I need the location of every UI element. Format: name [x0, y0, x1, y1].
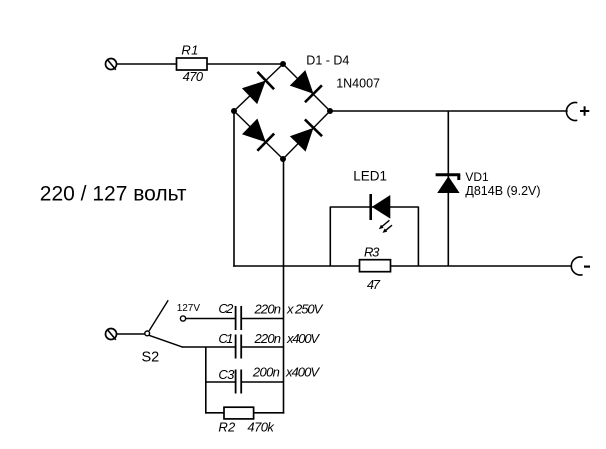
- wire: input terminal to switch pole: [116, 333, 144, 335]
- output terminal -: [571, 257, 590, 275]
- svg-text:C1: C1: [218, 331, 233, 346]
- svg-text:x 250V: x 250V: [286, 302, 324, 317]
- wire: left bus to C3: [206, 381, 236, 383]
- LED LED1: [371, 194, 392, 233]
- svg-text:S2: S2: [142, 350, 160, 366]
- svg-text:220n: 220n: [254, 331, 282, 346]
- svg-text:D1 - D4: D1 - D4: [306, 54, 349, 68]
- wire: minus rail: [233, 265, 571, 267]
- wire: C3 right plate to bus: [241, 381, 283, 383]
- capacitor C2: [218, 301, 323, 330]
- svg-text:470: 470: [183, 69, 204, 84]
- resistor R3: [360, 244, 391, 292]
- node: bridge right junction: [327, 108, 333, 114]
- node: bridge bottom junction: [280, 156, 286, 162]
- wire: left bus to R2: [205, 412, 224, 414]
- wire: input terminal to R1: [116, 63, 176, 65]
- diode D3 (left node to bottom node): [241, 118, 274, 151]
- diode D1 (left node to top node): [241, 72, 274, 105]
- wire: bridge edge top-right: [283, 64, 330, 111]
- wire: left bus vertical: [205, 347, 207, 414]
- svg-text:200n: 200n: [252, 365, 280, 380]
- node: bridge top junction: [280, 61, 286, 67]
- svg-text:Д814В (9.2V): Д814В (9.2V): [465, 184, 540, 198]
- svg-text:47: 47: [367, 277, 381, 292]
- capacitor C1: [218, 331, 320, 359]
- wire: switch throw to C1: [183, 346, 236, 348]
- wire: C2 right plate to bus: [241, 318, 283, 320]
- svg-text:LED1: LED1: [353, 168, 387, 183]
- wire: R1 to bridge top node: [207, 63, 283, 65]
- switch S2: [142, 300, 184, 365]
- svg-text:R3: R3: [364, 244, 380, 259]
- input terminal (bottom line input): [106, 329, 117, 340]
- svg-text:x400V: x400V: [286, 331, 320, 346]
- wire: 127V contact to C2: [186, 318, 236, 320]
- wire: bridge edge left-bottom: [234, 111, 283, 159]
- wire: LED branch left vertical: [329, 207, 331, 267]
- svg-text:R2: R2: [218, 420, 236, 435]
- 127V tap contact: [180, 316, 185, 321]
- node: bridge left junction: [231, 108, 237, 114]
- wire: bridge edge bottom-right: [283, 111, 330, 159]
- diode D4 (bottom node to right node): [289, 119, 322, 152]
- output terminal +: [566, 102, 589, 120]
- diode D2 (top node to right node): [289, 69, 322, 102]
- zener diode VD1: [436, 111, 461, 266]
- wire: bridge bottom node down to capacitor bus: [283, 159, 285, 414]
- svg-text:1N4007: 1N4007: [336, 76, 380, 90]
- svg-text:R1: R1: [181, 42, 198, 57]
- wire: bridge edge left-top: [234, 64, 283, 111]
- resistor R2: [218, 407, 275, 434]
- svg-text:VD1: VD1: [465, 170, 489, 184]
- svg-text:C2: C2: [218, 301, 234, 316]
- svg-text:x400V: x400V: [285, 365, 320, 380]
- wire: bridge left node down to minus rail: [233, 111, 235, 267]
- capacitor C3: [218, 365, 320, 394]
- wire: LED branch top horizontal: [330, 206, 418, 208]
- resistor R1: [177, 42, 208, 84]
- svg-text:C3: C3: [218, 367, 235, 382]
- wire: LED branch right vertical: [417, 207, 419, 267]
- input terminal (top line input): [106, 59, 117, 70]
- wire: R2 to capacitor bus: [254, 412, 285, 414]
- svg-text:127V: 127V: [177, 303, 201, 314]
- svg-text:220 / 127 вольт: 220 / 127 вольт: [40, 183, 187, 206]
- svg-text:470k: 470k: [247, 420, 275, 435]
- wire: bridge right node to + output: [330, 110, 568, 112]
- svg-text:220n: 220n: [254, 302, 282, 317]
- wire: C1 right plate to bus: [241, 346, 283, 348]
